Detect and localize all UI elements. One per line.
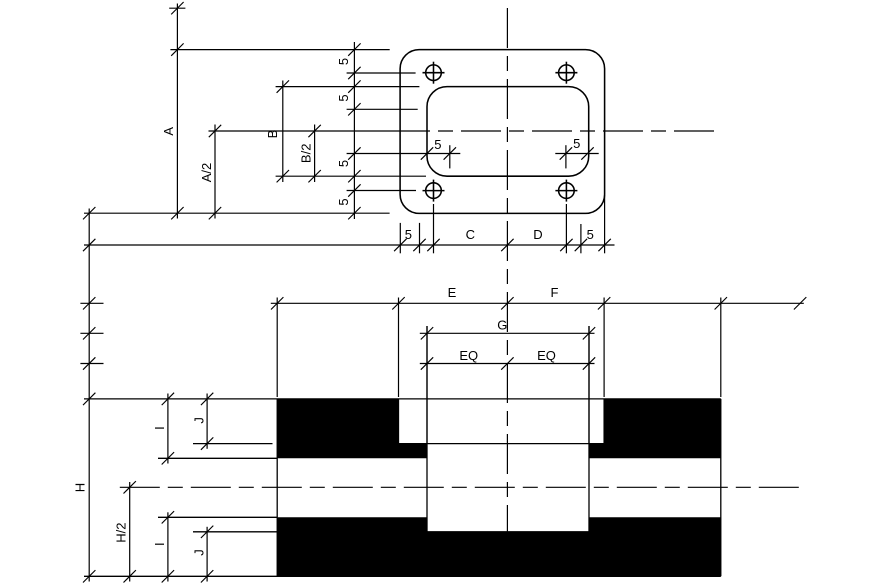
EQ dimension line <box>420 363 595 365</box>
ticks 5-chain <box>348 43 360 55</box>
svg-text:5: 5 <box>587 227 594 242</box>
hole top-right <box>555 62 577 84</box>
svg-text:J: J <box>192 417 207 424</box>
dimension line A <box>169 4 185 219</box>
J dimension line bottom <box>206 527 208 582</box>
svg-text:J: J <box>192 549 207 556</box>
ticks EQ line <box>421 357 433 369</box>
notch bottom edge <box>399 443 605 445</box>
H chain stub E/F level <box>80 302 103 304</box>
extension F right <box>720 298 722 398</box>
flange outer outline <box>400 50 604 214</box>
svg-text:5: 5 <box>336 160 351 167</box>
extension line flange bottom <box>84 212 390 214</box>
fill top-right block <box>589 399 721 458</box>
stub 5-dim left <box>449 145 451 168</box>
svg-text:5: 5 <box>434 137 441 152</box>
H chain vertical <box>88 209 90 582</box>
svg-text:5: 5 <box>336 198 351 205</box>
H chain stub EQ level <box>80 363 103 365</box>
5-chain vertical line <box>353 42 355 219</box>
extension stub inner left <box>419 223 421 253</box>
svg-text:EQ: EQ <box>459 348 478 363</box>
vertical centerline <box>506 8 508 531</box>
flange inner opening <box>427 87 589 177</box>
hole top-left <box>423 62 445 84</box>
J dimension line top <box>206 394 208 449</box>
ticks J bottom <box>201 526 213 538</box>
dimension line B/2 <box>314 125 316 183</box>
section left edge <box>276 399 278 576</box>
extension line flange right <box>604 195 606 253</box>
counterbore bottom edge <box>427 531 589 533</box>
svg-text:H/2: H/2 <box>114 522 129 542</box>
svg-text:F: F <box>551 285 559 300</box>
horizontal centerline bottom view <box>120 486 801 488</box>
ticks H/2 line <box>124 481 136 493</box>
C/D dimension line <box>84 244 615 246</box>
svg-text:H: H <box>72 483 87 492</box>
ticks J top <box>201 393 213 405</box>
extension line 5-dim left <box>347 153 461 155</box>
svg-text:I: I <box>152 542 167 546</box>
section top edge <box>84 398 721 400</box>
svg-text:5: 5 <box>336 58 351 65</box>
svg-text:A: A <box>161 127 176 136</box>
ticks H chain <box>83 207 95 219</box>
extension line flange top <box>170 49 389 51</box>
ticks I bottom <box>162 511 174 523</box>
stub 5-dim right <box>565 145 567 168</box>
extension line hole row bottom <box>347 190 416 192</box>
extension line inner corner top <box>347 108 418 110</box>
ticks B/2 line <box>308 125 320 137</box>
extension notch left <box>398 298 400 398</box>
svg-text:B/2: B/2 <box>298 144 313 164</box>
counterbore right edge <box>588 326 590 532</box>
svg-text:5: 5 <box>405 227 412 242</box>
svg-text:EQ: EQ <box>537 348 556 363</box>
extension stub flange left <box>399 223 401 253</box>
svg-text:5: 5 <box>336 94 351 101</box>
horizontal centerline top view <box>209 130 722 132</box>
I dimension line bottom <box>167 512 169 581</box>
extension E left <box>276 298 278 398</box>
section bottom edge <box>84 575 721 577</box>
H chain stub G level <box>80 332 103 334</box>
extension line 5-dim right <box>555 153 598 155</box>
svg-text:I: I <box>152 426 167 430</box>
svg-text:C: C <box>466 227 475 242</box>
extension stub inner right <box>580 224 582 253</box>
svg-text:A/2: A/2 <box>199 163 214 183</box>
fill bottom block <box>277 517 721 576</box>
hole bottom-right <box>555 180 577 202</box>
svg-text:G: G <box>497 318 507 333</box>
ticks 5-dim inner right <box>560 147 572 159</box>
extension line inner top <box>276 86 420 88</box>
extension line hole row top <box>347 72 416 74</box>
svg-text:E: E <box>448 285 457 300</box>
extension counterbore left upper <box>426 326 428 444</box>
ticks A/2 line <box>209 125 221 137</box>
svg-text:5: 5 <box>573 136 580 151</box>
notch right edge <box>603 399 605 444</box>
svg-text:D: D <box>533 227 542 242</box>
ticks I top <box>162 393 174 405</box>
extension notch right <box>603 298 605 398</box>
ticks B line <box>277 80 289 92</box>
dimension line A/2 <box>214 125 216 219</box>
svg-text:B: B <box>265 130 280 139</box>
notch left edge <box>398 399 400 444</box>
dimension line B <box>282 81 284 183</box>
ticks C/D line <box>83 239 95 251</box>
extension line inner bottom <box>276 175 426 177</box>
E/F dimension line <box>271 302 804 304</box>
extension counterbore bottom left <box>193 531 277 533</box>
ticks G line <box>421 327 433 339</box>
fill top-left block <box>277 399 427 458</box>
counterbore left edge <box>426 326 428 532</box>
extension line hole right <box>565 204 567 253</box>
hole bottom-left <box>423 180 445 202</box>
G dimension line <box>420 332 595 334</box>
ticks E/F line <box>271 297 283 309</box>
extension notch bottom left <box>193 443 273 445</box>
bore top edge <box>158 457 277 459</box>
H/2 dimension line <box>129 482 131 582</box>
I dimension line top <box>167 394 169 464</box>
ticks 5-dim inner left <box>421 147 433 159</box>
ticks A line <box>171 2 183 14</box>
section right edge <box>720 399 722 576</box>
bore bottom edge <box>158 516 277 518</box>
extension line hole left <box>433 204 435 253</box>
extension counterbore right upper <box>588 326 590 444</box>
